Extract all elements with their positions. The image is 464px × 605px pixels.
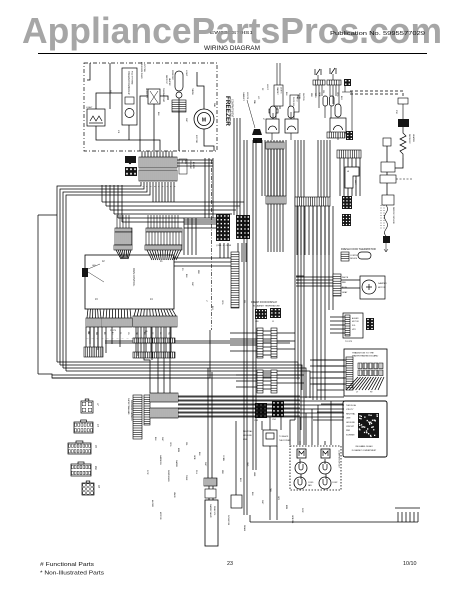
svg-text:* Non-Illustrated Parts: * Non-Illustrated Parts — [40, 571, 104, 577]
horizontal bus above power area — [178, 397, 344, 417]
freezer internal wires — [87, 63, 214, 151]
freezer fan motor M1 — [194, 109, 214, 129]
freezer light switch SW1 — [87, 109, 105, 126]
svg-text:WATER: WATER — [175, 460, 178, 468]
icemaker motor circle — [125, 109, 134, 118]
defrost heater box — [172, 100, 186, 112]
right column relay box — [381, 162, 395, 172]
H connector pair 2 — [257, 370, 263, 393]
svg-text:ORG: ORG — [221, 300, 223, 305]
connector block right — [398, 119, 409, 127]
freezer harness connector strip CONN F1 — [139, 157, 177, 168]
svg-text:BRN: BRN — [285, 505, 287, 510]
svg-text:THE POWER: THE POWER — [279, 440, 291, 442]
wires right of freezer strip — [205, 158, 213, 218]
vertical harness strip bottom left — [133, 395, 142, 439]
wires freezer strip down to loops — [153, 182, 174, 202]
water valve body — [205, 500, 218, 546]
barcode block — [358, 413, 379, 438]
display grid 2 — [270, 308, 281, 318]
extra horizontal bus lines — [105, 341, 290, 343]
overload protector M box 2 — [321, 449, 330, 458]
svg-text:SOL: SOL — [352, 325, 356, 327]
svg-text:DEFROST: DEFROST — [408, 134, 410, 144]
svg-text:AUGER: AUGER — [151, 500, 154, 508]
svg-text:LIGHTS: LIGHTS — [280, 87, 282, 94]
svg-text:HARNESS: HARNESS — [159, 455, 162, 465]
right column small box 1 — [383, 138, 391, 146]
nested wire loops bus — [102, 185, 244, 222]
compressor receptacle circle 2 — [319, 462, 331, 474]
inline connector bar A — [150, 393, 178, 402]
connector bar row 3 — [266, 196, 286, 204]
svg-text:LIGHT: LIGHT — [86, 107, 93, 109]
svg-text:SCHEME: SCHEME — [346, 434, 355, 436]
svg-text:TRANSITION TO THE: TRANSITION TO THE — [352, 352, 374, 355]
svg-text:J7: J7 — [205, 300, 207, 302]
svg-text:VALVE: VALVE — [173, 492, 176, 499]
bus bends into compressor area — [290, 420, 304, 445]
svg-text:YEL: YEL — [243, 300, 245, 304]
svg-text:YEL: YEL — [322, 90, 324, 94]
svg-text:MOTOR: MOTOR — [159, 512, 161, 520]
board bottom fan J3 — [87, 309, 101, 318]
svg-text:# Functional Parts: # Functional Parts — [40, 562, 94, 568]
wires from bars to right — [178, 396, 300, 416]
svg-text:CABINET: CABINET — [276, 87, 279, 96]
tall strip left — [231, 252, 239, 308]
svg-text:RED: RED — [197, 270, 199, 275]
compressor receptacle circle 1 — [295, 462, 307, 474]
dark grids above power cord — [255, 403, 267, 418]
defrost thermostat — [148, 89, 160, 104]
svg-text:FRESH FOOD DISPLAY: FRESH FOOD DISPLAY — [251, 301, 278, 304]
svg-text:FREEZER: FREEZER — [224, 96, 231, 126]
connector bar row 2 — [337, 150, 361, 158]
display grid 1 — [255, 309, 267, 319]
damper wires — [296, 277, 333, 286]
main control board — [85, 255, 174, 309]
svg-text:LIGHT: LIGHT — [185, 70, 187, 77]
damper connector — [333, 274, 341, 296]
svg-text:GROUND: GROUND — [346, 422, 355, 424]
svg-text:RED: RED — [221, 470, 223, 475]
svg-text:PER: PER — [346, 430, 351, 432]
svg-text:YEL: YEL — [185, 442, 187, 446]
svg-text:FREEZER ICEMAKER: FREEZER ICEMAKER — [127, 71, 130, 95]
svg-text:CABINET: CABINET — [242, 92, 245, 101]
svg-text:10/10: 10/10 — [403, 561, 417, 567]
wires below board going down — [90, 327, 170, 393]
connector P1 above board — [148, 215, 178, 228]
wires into transition box — [313, 360, 344, 420]
svg-text:IDE KABEL DILADI: IDE KABEL DILADI — [355, 445, 373, 448]
connector L7 — [81, 399, 93, 413]
svg-text:WATER VALVE: WATER VALVE — [209, 504, 212, 518]
door switch bar 1 — [313, 80, 325, 85]
board bottom fan J5 — [134, 309, 176, 316]
freezer compartment dashed box — [84, 63, 217, 151]
wires right of pairs — [277, 333, 295, 349]
svg-text:GRAY: GRAY — [342, 291, 348, 294]
bottom wide bar — [327, 132, 345, 138]
connector C8 — [82, 481, 94, 495]
svg-text:COND: COND — [308, 482, 314, 484]
wires to IPX — [330, 317, 345, 333]
svg-text:MAIN CONTROL: MAIN CONTROL — [132, 268, 135, 287]
svg-text:UTILITY: UTILITY — [346, 409, 354, 411]
svg-text:Publication No. 5995577029: Publication No. 5995577029 — [330, 31, 425, 37]
svg-text:MOTOR: MOTOR — [352, 321, 359, 323]
svg-text:FREEZER: FREEZER — [171, 70, 173, 80]
dark grid below bars — [346, 131, 353, 140]
connector J5 — [133, 316, 177, 327]
overload protector M box 1 — [297, 449, 306, 458]
wires freezer box to freezer connector — [142, 151, 172, 157]
connector J4A — [71, 462, 91, 476]
svg-text:LIGHT: LIGHT — [266, 84, 268, 91]
freezer icemaker box — [122, 68, 137, 125]
svg-text:DEFROST: DEFROST — [165, 75, 167, 85]
connector C5 — [68, 441, 91, 454]
svg-text:WATER TANK AND: WATER TANK AND — [127, 398, 130, 415]
svg-text:DEVICE: DEVICE — [350, 258, 358, 260]
svg-text:TO BLACK: TO BLACK — [279, 435, 289, 438]
wires in top cluster — [272, 63, 352, 140]
water valve assembly — [204, 478, 217, 486]
svg-text:VIO: VIO — [257, 96, 259, 100]
door switch bar 2 — [327, 80, 341, 85]
connector bar row 4 — [295, 197, 330, 206]
small hatch bar below A — [269, 109, 278, 113]
svg-text:TAN: TAN — [269, 488, 272, 492]
dotted feeders near squiggle — [381, 205, 384, 230]
short wires between connector rows — [86, 327, 102, 347]
connector P2 above board — [117, 215, 129, 228]
compressor receptacle circle 3 — [294, 477, 306, 489]
svg-text:J4A: J4A — [94, 466, 97, 470]
grid right of IPX — [366, 318, 374, 330]
connector grid G1 — [216, 214, 230, 241]
door switch symbols top — [315, 68, 336, 75]
wires freezer to fresh-food bus — [234, 118, 240, 215]
relay blob K2 — [125, 167, 137, 176]
svg-text:DUAL SOL: DUAL SOL — [213, 506, 216, 515]
svg-text:SWITCH: SWITCH — [302, 93, 304, 101]
svg-text:TUBE: TUBE — [185, 475, 187, 481]
svg-text:ISOLATION: ISOLATION — [227, 515, 230, 526]
svg-text:DOOR SW: DOOR SW — [292, 97, 294, 106]
valve wires — [208, 368, 213, 500]
compressor receptacle circle 4 — [319, 477, 331, 489]
H connector pair 1 — [257, 328, 263, 358]
svg-text:RED: RED — [342, 282, 347, 284]
text block B — [290, 95, 299, 112]
svg-text:WTR: WTR — [146, 470, 148, 475]
svg-text:BRD: BRD — [184, 160, 186, 165]
svg-text:PWR: PWR — [301, 508, 303, 513]
fresh food light 3 — [330, 104, 346, 133]
svg-text:NEUTRAL: NEUTRAL — [243, 430, 253, 433]
svg-text:IN CABINET COMPARTMENT: IN CABINET COMPARTMENT — [352, 449, 377, 452]
svg-text:FRESH FOOD THERMISTOR: FRESH FOOD THERMISTOR — [341, 247, 376, 251]
mating connector bar row2 mid — [133, 338, 175, 343]
svg-text:HEATER: HEATER — [412, 134, 415, 143]
wires board to grids — [174, 258, 231, 266]
dash-dot trunk line — [211, 160, 213, 330]
svg-text:THROUGH: THROUGH — [346, 405, 357, 407]
svg-text:THERMOSTAT: THERMOSTAT — [162, 88, 165, 103]
svg-text:M: M — [202, 118, 206, 124]
svg-text:BRN: BRN — [177, 448, 179, 453]
svg-text:LINE: LINE — [243, 439, 248, 441]
svg-text:DEFROST: DEFROST — [145, 88, 147, 99]
svg-text:LIMIT: LIMIT — [354, 180, 356, 186]
svg-text:LED: LED — [92, 265, 96, 267]
mating connector bar row2 right — [133, 352, 175, 358]
svg-text:MOTOR: MOTOR — [378, 287, 386, 289]
svg-text:Q1S8 - G - S4S8: Q1S8 - G - S4S8 — [216, 245, 232, 247]
svg-text:GROUND: GROUND — [243, 435, 252, 437]
transition pin grid — [358, 363, 362, 369]
connector grid G2 — [236, 215, 250, 239]
board bottom fan J4 — [103, 309, 131, 318]
dark block right of bars — [344, 79, 351, 86]
fresh food light 1 — [266, 106, 279, 133]
right column box w/ dash — [380, 175, 396, 183]
svg-text:DAMPER: DAMPER — [378, 282, 387, 285]
text block A — [274, 85, 283, 106]
wiring label box with barcode — [343, 401, 387, 457]
svg-text:ORG: ORG — [336, 92, 338, 97]
svg-text:WATER HEATING BOARD: WATER HEATING BOARD — [352, 355, 379, 358]
bottom comb terminal — [250, 508, 420, 522]
svg-text:CIRCUIT: CIRCUIT — [346, 426, 355, 428]
svg-text:P9: P9 — [181, 268, 183, 270]
right column wires — [387, 146, 403, 195]
svg-text:IN CABINET TEMPERATURE: IN CABINET TEMPERATURE — [253, 305, 280, 308]
connector J3 — [86, 318, 102, 327]
connector side label box — [179, 159, 187, 174]
small connector on right feed — [398, 98, 408, 104]
svg-text:COMPRESSOR CKT: COMPRESSOR CKT — [338, 450, 340, 469]
svg-text:LIGHTS: LIGHTS — [246, 92, 248, 100]
svg-text:GND: GND — [246, 462, 248, 467]
svg-text:SW: SW — [109, 90, 111, 93]
relay capsules — [323, 96, 334, 106]
svg-text:NEUTRAL: NEUTRAL — [346, 412, 356, 415]
svg-text:DRAIN: DRAIN — [243, 525, 246, 532]
dark comp on squiggle — [383, 236, 390, 243]
svg-text:ORG: ORG — [169, 442, 171, 447]
svg-text:DISPENSER: DISPENSER — [167, 470, 169, 482]
condensate component — [252, 129, 262, 135]
svg-text:CONN: CONN — [222, 455, 224, 461]
small box mid bottom — [231, 495, 242, 508]
horizontal bus to right section — [38, 330, 310, 398]
ice and water dispenser box TO IPX — [343, 313, 363, 338]
mating connector strip row2 left — [84, 347, 103, 357]
compressor wires — [300, 410, 331, 479]
verticals from bus down — [236, 401, 331, 520]
svg-text:WHITE: WHITE — [342, 277, 349, 279]
connector J4 — [102, 318, 132, 327]
board edge component — [82, 268, 88, 277]
freezer light lamp — [175, 71, 183, 98]
svg-text:FREEZER: FREEZER — [189, 160, 191, 169]
defrost heater zigzag — [400, 127, 406, 158]
svg-text:GRN: GRN — [318, 92, 320, 97]
transition to water heating board box — [344, 349, 387, 396]
svg-text:DEFROST SENSOR: DEFROST SENSOR — [392, 207, 394, 224]
svg-text:HEATER: HEATER — [168, 78, 171, 86]
relay blob K1 — [125, 156, 136, 164]
svg-text:BLU: BLU — [239, 478, 241, 482]
svg-text:COMP: COMP — [332, 482, 338, 484]
svg-text:DISPENSER HARNESS: DISPENSER HARNESS — [130, 400, 133, 421]
thermistor connector — [341, 252, 349, 261]
dashed feed line top right — [350, 91, 403, 98]
squiggle wire — [385, 205, 388, 236]
power cord connector — [263, 430, 277, 446]
thermistor capsule — [358, 252, 371, 259]
connector bar row 1 — [266, 142, 284, 149]
pressure switch flag box — [345, 167, 359, 188]
svg-text:BLU: BLU — [211, 306, 213, 310]
svg-text:SYSTEM: SYSTEM — [143, 64, 145, 72]
svg-text:BLU: BLU — [340, 96, 342, 100]
svg-text:FAN: FAN — [213, 103, 216, 108]
right column box 3 — [382, 195, 394, 205]
svg-text:WIRING DIAGRAM: WIRING DIAGRAM — [204, 46, 260, 52]
fresh food light 2 — [285, 106, 298, 133]
compressor dashed box — [290, 446, 341, 490]
main vertical wire bus center — [295, 140, 304, 276]
svg-text:PRESSURE PLATE: PRESSURE PLATE — [140, 62, 143, 80]
svg-text:LINE: LINE — [253, 472, 255, 477]
svg-text:LINE: LINE — [346, 418, 351, 420]
svg-text:RED: RED — [310, 93, 312, 98]
inline connector bar B — [150, 408, 178, 418]
loop verticals left — [38, 182, 150, 374]
svg-text:FILL SYSTEM: FILL SYSTEM — [131, 71, 133, 84]
damper motor — [360, 276, 385, 299]
svg-text:TO IPX: TO IPX — [345, 341, 353, 343]
svg-text:THERM: THERM — [191, 88, 193, 95]
svg-text:MOTOR: MOTOR — [195, 135, 197, 144]
svg-text:GRN: GRN — [193, 455, 195, 460]
connector C7 — [74, 420, 93, 433]
svg-text:COMPARTMENT: COMPARTMENT — [231, 99, 234, 118]
bundle below bar3 — [268, 149, 283, 196]
dark grids right middle — [342, 196, 352, 209]
svg-text:AUGER: AUGER — [352, 317, 359, 320]
connector J1B — [0, 0, 1, 1]
title underline — [38, 53, 427, 55]
dark blob below condensate — [253, 138, 262, 143]
svg-text:23: 23 — [227, 561, 233, 567]
